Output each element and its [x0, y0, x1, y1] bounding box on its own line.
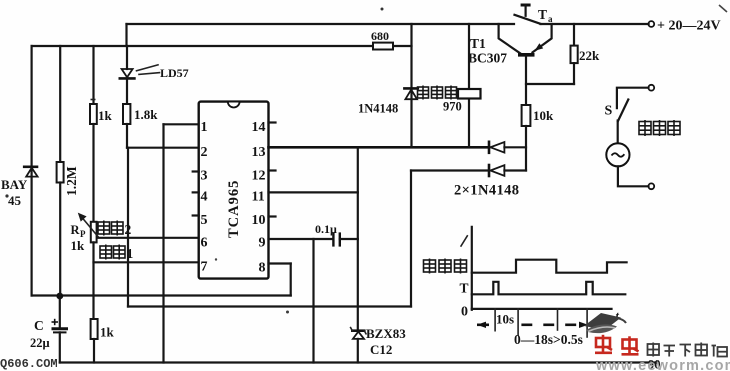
svg-text:BAY: BAY — [1, 177, 28, 192]
U1 notch — [228, 102, 240, 108]
wire vertical from pin9 node down to bottom rail — [312, 239, 314, 363]
wire second rail — [32, 45, 373, 47]
node junction dot — [56, 293, 63, 300]
svg-text:1.8k: 1.8k — [134, 107, 158, 122]
tick at second pulse — [586, 309, 588, 337]
watermark graduation cap — [584, 313, 626, 333]
svg-text:Q606.COM: Q606.COM — [0, 357, 58, 371]
load branch: terminal upper — [648, 85, 654, 91]
terminal lower — [648, 183, 654, 189]
pin 14 stub — [269, 121, 276, 123]
wire T1 base lead down — [525, 57, 527, 105]
svg-text:BC307: BC307 — [468, 51, 507, 66]
wire load to lower terminal — [618, 166, 649, 186]
wire 1.8k down to pin2 node — [126, 124, 128, 148]
svg-text:C12: C12 — [370, 342, 392, 357]
wire zener to bottom rail — [357, 339, 359, 363]
label ~ inside load — [612, 153, 625, 157]
wire pin11 wire — [269, 191, 358, 193]
svg-text:9: 9 — [259, 236, 266, 251]
wire pin8 drop to ground return — [290, 264, 292, 296]
wire pin1 drop to pin2 node — [162, 124, 164, 147]
diode BAY45 — [24, 167, 37, 177]
wire 10k bottom lead — [525, 126, 527, 171]
svg-text:0—18s>0.5s: 0—18s>0.5s — [514, 332, 583, 347]
tick at 10s end — [517, 309, 519, 335]
wire jog from top rail down to second rail — [125, 24, 127, 46]
resistor 10k — [522, 105, 531, 126]
capacitor 0.1u — [333, 232, 339, 246]
wire RP bottom through to lower 1k — [92, 242, 94, 319]
wire capacitor bottom lead — [59, 332, 61, 362]
wire 1k / RP chain from second rail — [92, 46, 94, 104]
wire 1k lower to bottom rail — [93, 339, 95, 363]
svg-text:7: 7 — [201, 260, 208, 275]
wire pin7 wire — [94, 261, 199, 263]
svg-text:10s: 10s — [496, 312, 514, 327]
svg-text:TCA965: TCA965 — [226, 180, 242, 238]
wire 1.8k chain continues down to lower bus — [127, 148, 129, 307]
wire junction down to capacitor C — [59, 296, 61, 327]
svg-text:T: T — [538, 7, 547, 22]
timing diagram y-axis — [471, 227, 473, 310]
wire pin8 lead — [269, 262, 291, 264]
resistor 1k upper — [90, 104, 97, 124]
speck top right backslash — [719, 5, 727, 12]
wire top rail left segment — [127, 23, 515, 25]
pin 10 stub — [269, 215, 276, 217]
wire 22k bottom to base lead — [526, 83, 574, 85]
potentiometer RP body — [91, 222, 97, 243]
transistor T1 BC307 — [499, 24, 552, 105]
svg-text:22μ: 22μ — [30, 336, 50, 350]
svg-text:C: C — [34, 318, 44, 333]
watermark 电子下载站 gray — [648, 343, 728, 357]
wire pin13 wire to diodes — [269, 146, 490, 149]
resistor 680 — [373, 43, 393, 50]
wire top rail right segment — [541, 23, 649, 25]
label 用电器 (appliance) — [639, 120, 680, 136]
svg-text:10: 10 — [252, 213, 266, 228]
timing x-axis — [472, 308, 612, 310]
label 继电器 (relay) — [418, 86, 457, 100]
label 继电器 (timing) — [424, 259, 467, 274]
wire pin9 wire right part — [340, 238, 358, 240]
axis break slash — [461, 236, 467, 246]
svg-text:1: 1 — [201, 120, 208, 135]
wire pin2 wire — [127, 147, 199, 149]
svg-text:a: a — [548, 14, 553, 24]
pin 3 stub — [193, 170, 199, 172]
wire relay branch vertical — [468, 24, 470, 147]
svg-text:4: 4 — [201, 190, 208, 205]
wire vertical bus to bottom rail — [162, 148, 164, 363]
wire 680 right lead to node — [393, 45, 412, 47]
svg-text:3: 3 — [201, 169, 208, 184]
svg-text:0: 0 — [461, 305, 468, 320]
watermark 虫虫 red — [595, 335, 639, 355]
svg-text:12: 12 — [252, 169, 266, 184]
svg-text:T: T — [460, 281, 469, 296]
wire lower bus horizontal — [128, 305, 411, 307]
potentiometer RP wiper arrow — [78, 213, 99, 238]
T1 base bar — [518, 53, 535, 57]
svg-text:BZX83: BZX83 — [366, 326, 406, 341]
diode D3 lower 1N4148 — [411, 165, 526, 176]
svg-text:6: 6 — [201, 236, 208, 251]
wire 1.2M bottom to junction — [59, 183, 61, 296]
speck top middle — [381, 8, 384, 11]
wire pin9 wire left part — [269, 238, 334, 240]
svg-text:T1: T1 — [470, 36, 486, 51]
capacitor C 22u plates — [52, 319, 69, 333]
resistor 1.8k — [123, 104, 130, 124]
svg-text:45: 45 — [8, 193, 22, 208]
wire ground return line (pin8 loop bottom) — [32, 294, 291, 296]
relay coil 970 — [458, 89, 481, 99]
junction tick on 1k lead — [91, 99, 96, 101]
speck mid-left — [215, 258, 217, 260]
LED LD57 — [120, 65, 160, 79]
wire LED branch from second rail — [126, 46, 128, 69]
svg-text:14: 14 — [252, 120, 266, 135]
svg-text:5: 5 — [201, 213, 208, 228]
pin 12 stub — [269, 169, 276, 171]
terminal +supply — [648, 21, 654, 27]
wire node vertical x411 top (rail to pin13 line) with 1N4148 — [410, 24, 412, 147]
pin 5 stub — [193, 214, 199, 216]
wire 1k to RP — [92, 124, 94, 222]
svg-text:11: 11 — [252, 190, 265, 205]
svg-text:LD57: LD57 — [160, 66, 189, 80]
wire vertical pin13-node to zener — [357, 147, 359, 330]
resistor 22k — [571, 24, 578, 84]
wire terminal to switch — [617, 88, 649, 109]
svg-text:8: 8 — [259, 261, 266, 276]
diode zener BZX83 C12 — [351, 328, 366, 339]
resistor 1k lower — [91, 319, 98, 339]
svg-text:2×1N4148: 2×1N4148 — [454, 183, 519, 199]
waveform T trace — [472, 282, 626, 295]
label 阈值1 (threshold 1) — [100, 245, 125, 260]
wire pin1 wire — [164, 123, 199, 125]
wire left rail vertical — [31, 46, 33, 296]
dimension line with arrows — [477, 322, 588, 328]
svg-text:0.1μ: 0.1μ — [315, 222, 337, 236]
wire LED to 1.8k — [126, 78, 128, 104]
svg-text:1.2M: 1.2M — [64, 166, 79, 196]
svg-text:1k: 1k — [98, 108, 113, 123]
svg-text:1k: 1k — [71, 238, 86, 253]
wire T1 right lead from rail with emitter arrow — [533, 24, 552, 52]
resistor 1.2M — [57, 162, 64, 183]
speck mid-right — [286, 311, 289, 314]
load AC source circle — [606, 143, 629, 166]
wire pin6 wire from wiper — [98, 237, 199, 239]
svg-text:680: 680 — [371, 29, 389, 43]
tick mid — [557, 309, 559, 330]
svg-text:www.eeworm.com: www.eeworm.com — [595, 358, 730, 371]
wire 1.2M branch top — [59, 46, 61, 162]
svg-text:22k: 22k — [579, 48, 600, 63]
svg-text:R: R — [71, 223, 81, 237]
svg-text:10k: 10k — [533, 108, 554, 123]
wire vertical lower-diode drop — [410, 171, 412, 307]
svg-text:970: 970 — [443, 100, 462, 114]
svg-text:1: 1 — [127, 246, 134, 261]
switch S blade — [618, 100, 628, 122]
svg-text:13: 13 — [252, 145, 266, 160]
wire bottom rail — [60, 361, 657, 363]
relay contact Ta — [515, 5, 541, 24]
svg-text:2: 2 — [125, 222, 132, 237]
diode D2 upper 1N4148 — [489, 142, 526, 153]
op-amp U1 TCA965 body — [199, 102, 269, 279]
svg-text:1N4148: 1N4148 — [358, 102, 398, 116]
svg-text:+ 20—24V: + 20—24V — [657, 19, 721, 34]
speck left — [5, 194, 8, 197]
waveform relay trace — [472, 260, 627, 273]
svg-text:1k: 1k — [100, 325, 115, 340]
label 阈值2 (threshold 2) — [98, 221, 123, 236]
wire T1 left lead from rail — [499, 24, 520, 53]
pin 4 stub — [193, 191, 199, 193]
diode 1N4148 flyback — [404, 88, 417, 99]
tick at 10s start — [494, 309, 496, 331]
svg-text:2: 2 — [201, 145, 208, 160]
wire switch to load — [617, 121, 619, 144]
svg-text:S: S — [605, 104, 613, 119]
